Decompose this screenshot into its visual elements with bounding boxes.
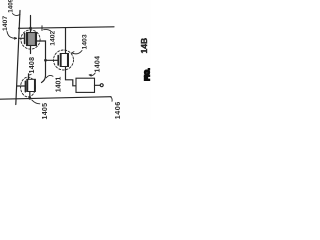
transistor T3 dashed circle	[21, 77, 36, 97]
transistor T3 drain bar	[34, 80, 36, 91]
wire T3 top lead	[28, 74, 30, 80]
svg-text:1401: 1401	[56, 77, 63, 93]
leader 1402 tick on rail	[41, 26, 43, 31]
svg-text:1406: 1406	[113, 101, 122, 119]
leader 1404 arrow	[89, 73, 95, 76]
transistor T3 channel rect	[27, 79, 36, 91]
wire T3 bottom lead	[29, 92, 31, 99]
wire T2 top lead from rail	[65, 28, 67, 54]
transistor T1 channel rect	[27, 33, 37, 46]
wire T1 bottom stub	[30, 46, 32, 54]
node A-rail junction	[18, 27, 20, 29]
leader 1401 arrow	[46, 75, 53, 77]
wire vertical gate line A (1407)	[16, 11, 20, 105]
svg-text:1403: 1403	[81, 34, 88, 49]
leader 1403 arrow	[72, 51, 82, 54]
svg-text:1405: 1405	[42, 103, 49, 120]
transistor T2 channel rect	[60, 54, 68, 67]
svg-text:14B: 14B	[139, 38, 149, 54]
transistor T2 (driving TFT) dashed circle	[54, 50, 74, 70]
transistor T3 gate bar	[24, 81, 26, 91]
leader 1405 arrow	[32, 100, 40, 104]
EL element box	[76, 78, 95, 92]
node T1-T2 junction	[44, 59, 47, 62]
transistor T2 source bar	[60, 54, 62, 66]
wire T2 bottom lead to EL box	[66, 67, 77, 86]
svg-text:1402: 1402	[50, 30, 57, 45]
transistor T1 gate lead	[19, 37, 24, 39]
svg-text:1404: 1404	[95, 56, 102, 73]
wire bottom rail	[0, 97, 111, 100]
node B-rail junction	[29, 27, 32, 30]
leader 1408 arrow	[29, 73, 32, 76]
svg-text:1409: 1409	[8, 0, 15, 13]
wire top rail	[19, 27, 114, 29]
wire box output	[95, 84, 101, 86]
transistor T2 drain bar	[67, 54, 69, 66]
svg-text:1408: 1408	[29, 57, 36, 74]
wire down from junction with hook toward T3	[42, 60, 46, 82]
transistor T1 gate bar	[24, 34, 26, 44]
transistor T2 gate bar	[57, 56, 59, 66]
transistor T3 gate lead	[17, 85, 25, 87]
transistor T1 (switching TFT) dashed circle	[21, 30, 40, 49]
transistor T1 drain bar	[35, 33, 37, 45]
transistor T1 source bar	[26, 33, 28, 45]
svg-text:FIG.: FIG.	[145, 68, 152, 81]
leader 1402 arrow	[44, 30, 51, 31]
wire vertical source line B top stub	[30, 16, 32, 33]
node T3-rail junction	[28, 97, 31, 100]
transistor T3 source bar	[26, 80, 28, 91]
leader 1407 arrow	[7, 32, 17, 39]
svg-text:1407: 1407	[2, 16, 9, 31]
node output terminal ring	[100, 84, 103, 87]
leader 1406 arrow	[111, 97, 113, 102]
wire T1 drain to T2 gate	[36, 41, 58, 60]
leader 1409 arrow	[13, 14, 21, 16]
